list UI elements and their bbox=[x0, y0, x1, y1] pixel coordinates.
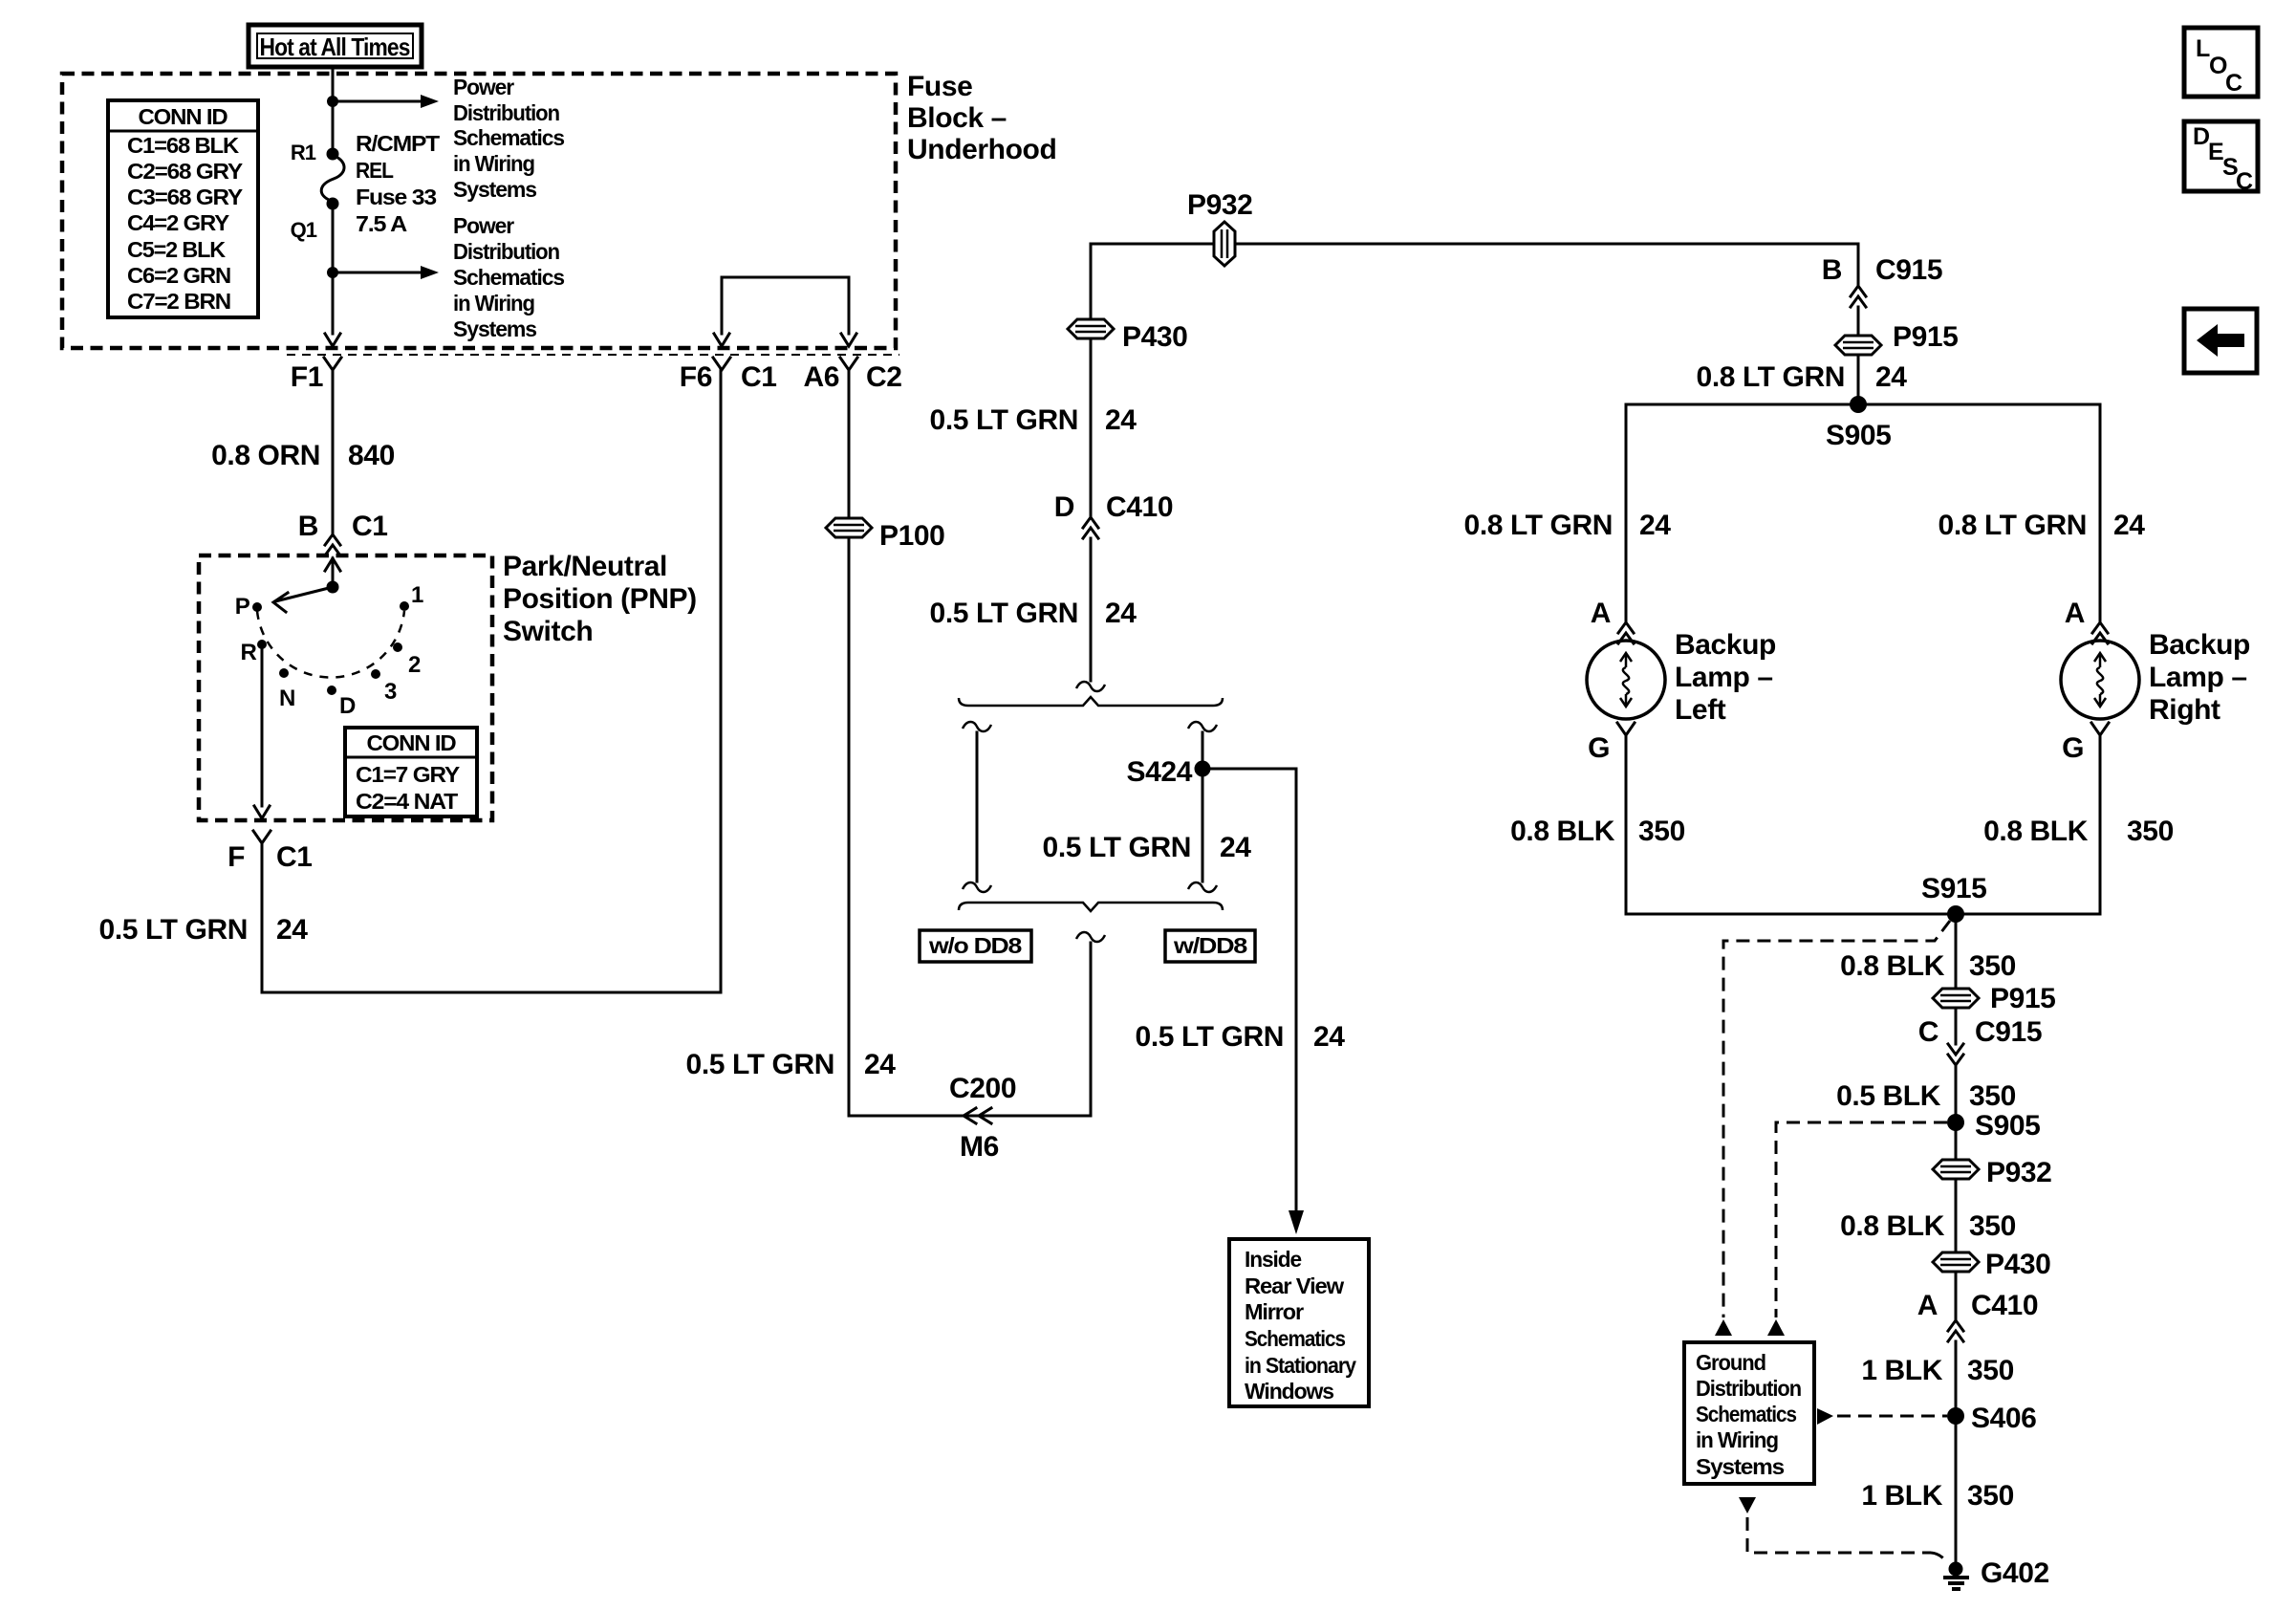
svg-text:w/o DD8: w/o DD8 bbox=[928, 933, 1023, 958]
svg-text:0.8 LT GRN: 0.8 LT GRN bbox=[1697, 361, 1845, 393]
svg-text:Rear View: Rear View bbox=[1245, 1274, 1344, 1298]
svg-text:Schematics: Schematics bbox=[1696, 1402, 1796, 1426]
grommet P915 (top) bbox=[1835, 321, 1958, 355]
contact D bbox=[327, 686, 356, 719]
arrow from box bottom (to G402 run) bbox=[1739, 1497, 1756, 1513]
svg-text:0.5 LT GRN: 0.5 LT GRN bbox=[930, 404, 1078, 436]
pin labels F6 C1 bbox=[680, 361, 777, 393]
svg-text:Left: Left bbox=[1675, 694, 1726, 726]
svg-text:D: D bbox=[339, 693, 356, 719]
svg-text:24: 24 bbox=[864, 1049, 896, 1080]
svg-text:P100: P100 bbox=[879, 520, 944, 552]
svg-text:C410: C410 bbox=[1106, 491, 1173, 523]
wire: P430 to C410 break bbox=[1955, 1273, 1958, 1318]
wire label 0.8 BLK 350 (left) bbox=[1510, 816, 1685, 847]
svg-text:C2=68 GRY: C2=68 GRY bbox=[127, 159, 243, 184]
svg-text:24: 24 bbox=[1875, 361, 1907, 393]
svg-text:L: L bbox=[2196, 35, 2210, 62]
label box: w/DD8 bbox=[1165, 930, 1255, 962]
svg-text:C1: C1 bbox=[741, 361, 777, 393]
wire: P932 to P430 bbox=[1955, 1180, 1958, 1252]
svg-text:Systems: Systems bbox=[453, 177, 536, 202]
connector break C C915 (arrow down) bbox=[1948, 1044, 1963, 1065]
switch common wire entering box (arrow up) bbox=[325, 558, 340, 587]
wire label 0.5 LT GRN 24 (above C410) bbox=[930, 404, 1137, 436]
ground G402 bbox=[1943, 1557, 2049, 1589]
pin labels A C410 bbox=[1917, 1290, 2038, 1321]
svg-text:A: A bbox=[2065, 598, 2085, 629]
svg-text:Windows: Windows bbox=[1245, 1379, 1333, 1404]
option split bracket (top) bbox=[959, 697, 1223, 706]
label: Backup Lamp - Right bbox=[2149, 629, 2250, 726]
svg-text:S905: S905 bbox=[1975, 1110, 2040, 1142]
svg-text:C4=2 GRY: C4=2 GRY bbox=[127, 210, 229, 235]
svg-text:P430: P430 bbox=[1985, 1249, 2050, 1280]
wire label 1 BLK 350 (upper) bbox=[1861, 1355, 2014, 1386]
inline connector C200 M6 (chevrons) bbox=[949, 1073, 1016, 1163]
svg-text:A6: A6 bbox=[803, 361, 839, 393]
svg-text:in Wiring: in Wiring bbox=[453, 291, 534, 316]
wire label 0.5 LT GRN 24 (w/DD8 branch) bbox=[1043, 832, 1252, 863]
reference box: Inside Rear View Mirror Schematics in Stationary Windows bbox=[1229, 1239, 1369, 1406]
svg-text:3: 3 bbox=[384, 679, 397, 705]
svg-text:B: B bbox=[1822, 254, 1842, 286]
wire arrow to Power Distribution (top) bbox=[333, 95, 439, 108]
CONN ID table (fuse block) bbox=[108, 100, 258, 317]
wire label 0.8 LT GRN 24 (into S905) bbox=[1697, 361, 1908, 393]
svg-text:N: N bbox=[279, 686, 295, 711]
svg-text:S424: S424 bbox=[1127, 756, 1193, 788]
svg-text:Fuse 33: Fuse 33 bbox=[356, 185, 436, 209]
wire label 0.5 LT GRN 24 (PNP output) bbox=[99, 914, 309, 946]
svg-text:24: 24 bbox=[1220, 832, 1251, 863]
fuse R/CMPT REL Fuse 33 7.5 A (element between R1 and Q1) bbox=[321, 148, 344, 210]
svg-text:S905: S905 bbox=[1826, 420, 1891, 451]
splice S905 bbox=[1826, 396, 1891, 451]
grommet P932 (engine harness) bbox=[1187, 189, 1252, 266]
pin labels F C1 bbox=[227, 841, 313, 873]
svg-text:CONN ID: CONN ID bbox=[367, 730, 456, 755]
wire: P932 run corner down to C915 bbox=[1857, 244, 1860, 284]
pin labels C C915 bbox=[1918, 1016, 2042, 1048]
wire: C410 down to option split bbox=[1090, 538, 1093, 681]
grommet P430 (top) bbox=[1068, 319, 1187, 353]
wire arrow to Power Distribution (bottom) bbox=[333, 266, 439, 279]
wire label 0.8 BLK 350 (S915 out) bbox=[1840, 950, 2016, 982]
wire label 0.8 BLK 350 (right) bbox=[1983, 816, 2174, 847]
wire: C915 to P915 bbox=[1857, 307, 1860, 335]
svg-text:Ground: Ground bbox=[1696, 1350, 1765, 1375]
svg-text:0.8 ORN: 0.8 ORN bbox=[211, 440, 320, 471]
svg-text:F: F bbox=[227, 841, 245, 873]
wire: P915 to C915 break bbox=[1955, 1009, 1958, 1044]
svg-text:Schematics: Schematics bbox=[453, 265, 564, 290]
backup lamp - right (bulb) bbox=[2061, 641, 2139, 719]
pin A break (left lamp) bbox=[1591, 598, 1634, 643]
svg-text:0.8 BLK: 0.8 BLK bbox=[1840, 950, 1945, 982]
svg-text:CONN ID: CONN ID bbox=[139, 104, 227, 129]
svg-text:G402: G402 bbox=[1981, 1557, 2049, 1589]
pin label R1 bbox=[291, 141, 316, 164]
wire: S424 to Inside Rear View Mirror box bbox=[1202, 769, 1304, 1234]
icon: DESC button bbox=[2184, 121, 2258, 195]
label: Fuse Block - Underhood bbox=[907, 71, 1056, 165]
splice S406 bbox=[1947, 1403, 2036, 1434]
thin dashed connector interface line below fuse block bbox=[287, 354, 899, 356]
svg-text:P932: P932 bbox=[1986, 1157, 2051, 1188]
svg-text:R: R bbox=[240, 640, 256, 665]
svg-text:R/CMPT: R/CMPT bbox=[356, 131, 440, 156]
svg-text:24: 24 bbox=[276, 914, 308, 946]
pin label Q1 bbox=[291, 218, 317, 242]
svg-text:7.5 A: 7.5 A bbox=[356, 211, 407, 236]
svg-text:Schematics: Schematics bbox=[453, 125, 564, 150]
svg-text:C200: C200 bbox=[949, 1073, 1016, 1104]
svg-text:Right: Right bbox=[2149, 694, 2220, 726]
annotation: Power Distribution Schematics in Wiring Systems (top) bbox=[453, 75, 564, 202]
svg-text:350: 350 bbox=[1969, 950, 2016, 982]
svg-text:2: 2 bbox=[408, 652, 421, 678]
annotation: Power Distribution Schematics in Wiring Systems (bottom) bbox=[453, 213, 564, 341]
svg-text:C6=2 GRN: C6=2 GRN bbox=[127, 263, 231, 288]
pin A break (right lamp) bbox=[2065, 598, 2108, 643]
svg-text:350: 350 bbox=[2127, 816, 2174, 847]
svg-text:w/DD8: w/DD8 bbox=[1173, 933, 1248, 958]
svg-text:Mirror: Mirror bbox=[1245, 1299, 1304, 1324]
wire: C200 stub up to option merge bbox=[1090, 943, 1093, 1116]
wire break at merge stub bbox=[1076, 932, 1105, 942]
connector pin A6 C2 (socket) bbox=[840, 358, 857, 370]
CONN ID table (PNP switch) bbox=[345, 728, 477, 816]
arrow into box (from S905) bbox=[1767, 1319, 1785, 1336]
reference box: Ground Distribution Schematics in Wiring Systems bbox=[1684, 1342, 1814, 1484]
svg-text:0.8 BLK: 0.8 BLK bbox=[1840, 1210, 1945, 1242]
dashed wire: box to S406 bbox=[1837, 1415, 1947, 1418]
label box: Hot at All Times bbox=[249, 25, 422, 67]
svg-text:C1=68 BLK: C1=68 BLK bbox=[127, 133, 240, 158]
wire: A6 C2 down to P100 bbox=[848, 370, 851, 517]
switch pivot junction bbox=[327, 581, 339, 594]
label box: w/o DD8 bbox=[920, 930, 1031, 962]
wire: F1 to PNP switch pin B bbox=[332, 370, 335, 533]
wire: P915 down to S905 bbox=[1857, 356, 1860, 404]
svg-text:Park/Neutral: Park/Neutral bbox=[503, 551, 667, 582]
svg-text:in Wiring: in Wiring bbox=[453, 151, 534, 176]
svg-text:Lamp –: Lamp – bbox=[2149, 662, 2247, 693]
wire: P430 branch corner to C915 corner (through P932) bbox=[1091, 243, 1858, 246]
arrow from box to S406 bbox=[1817, 1408, 1833, 1425]
wire: left lamp ground drop bbox=[1625, 735, 1628, 914]
svg-text:350: 350 bbox=[1967, 1355, 2014, 1386]
svg-text:P: P bbox=[235, 594, 250, 620]
pin G socket (left lamp) bbox=[1588, 723, 1635, 764]
connector break B C1 bbox=[325, 534, 340, 555]
wire: corner down to P430 bbox=[1090, 244, 1093, 318]
svg-text:A: A bbox=[1591, 598, 1611, 629]
switch arm (points at P) bbox=[273, 587, 333, 612]
connector pin F6 C1 (socket) bbox=[713, 358, 730, 370]
svg-text:350: 350 bbox=[1969, 1080, 2016, 1112]
svg-text:Backup: Backup bbox=[2149, 629, 2250, 661]
wire label 1 BLK 350 (lower) bbox=[1861, 1480, 2014, 1512]
ground rail into S915 bbox=[1626, 913, 2100, 916]
label: Backup Lamp - Left bbox=[1675, 629, 1776, 726]
svg-text:Q1: Q1 bbox=[291, 218, 317, 242]
grommet P430 (bottom) bbox=[1933, 1249, 2050, 1280]
svg-text:Systems: Systems bbox=[453, 316, 536, 341]
svg-text:0.5 LT GRN: 0.5 LT GRN bbox=[99, 914, 248, 946]
svg-text:0.5 LT GRN: 0.5 LT GRN bbox=[686, 1049, 834, 1080]
svg-text:Lamp –: Lamp – bbox=[1675, 662, 1773, 693]
svg-text:Underhood: Underhood bbox=[907, 134, 1056, 165]
wire: fuse block internal bridge F6 to A6 bbox=[722, 277, 849, 334]
svg-text:C1: C1 bbox=[352, 511, 388, 542]
svg-text:Block –: Block – bbox=[907, 102, 1007, 134]
wire break before option split bbox=[1076, 682, 1105, 691]
splice S915 bbox=[1921, 873, 1986, 923]
svg-text:Distribution: Distribution bbox=[453, 100, 559, 125]
arrow into box (from S915) bbox=[1715, 1319, 1732, 1336]
svg-text:in Stationary: in Stationary bbox=[1245, 1353, 1356, 1378]
wire label 0.5 LT GRN 24 (above C200) bbox=[686, 1049, 897, 1080]
backup lamp - left (bulb) bbox=[1587, 641, 1665, 719]
svg-text:C: C bbox=[2225, 70, 2242, 97]
wire: P100 down to C200 run bbox=[849, 538, 1091, 1116]
svg-text:24: 24 bbox=[1105, 404, 1137, 436]
pin labels B C1 bbox=[298, 511, 388, 542]
svg-text:C: C bbox=[2236, 168, 2253, 195]
dashed wire: S915 to Ground Distribution box bbox=[1723, 921, 1950, 1317]
svg-text:P915: P915 bbox=[1893, 321, 1958, 353]
wire label 0.5 LT GRN 24 (mirror feed) bbox=[1136, 1021, 1346, 1053]
wire: pin F C1 down, across and up to fuse block F6 bbox=[262, 370, 721, 992]
wire label 0.5 LT GRN 24 (below C410) bbox=[930, 598, 1137, 629]
svg-text:0.5 BLK: 0.5 BLK bbox=[1836, 1080, 1941, 1112]
svg-text:Position (PNP): Position (PNP) bbox=[503, 583, 697, 615]
contact 1 bbox=[400, 582, 423, 611]
svg-text:Distribution: Distribution bbox=[1696, 1376, 1801, 1401]
contact 3 bbox=[371, 669, 397, 705]
icon: LOC button bbox=[2184, 28, 2258, 97]
svg-text:F6: F6 bbox=[680, 361, 712, 393]
svg-text:0.5 LT GRN: 0.5 LT GRN bbox=[1043, 832, 1191, 863]
wire: P430 to C410 break bbox=[1090, 339, 1093, 515]
svg-text:G: G bbox=[1588, 732, 1610, 764]
svg-text:P430: P430 bbox=[1122, 321, 1187, 353]
wire label 0.8 LT GRN 24 (left lamp feed) bbox=[1464, 510, 1672, 541]
pin labels D C410 bbox=[1054, 491, 1173, 523]
svg-text:M6: M6 bbox=[960, 1131, 999, 1163]
svg-text:350: 350 bbox=[1638, 816, 1685, 847]
svg-text:0.8 LT GRN: 0.8 LT GRN bbox=[1939, 510, 2087, 541]
splice S905 (ground) bbox=[1947, 1110, 2040, 1142]
svg-text:Backup: Backup bbox=[1675, 629, 1776, 661]
svg-text:A: A bbox=[1917, 1290, 1938, 1321]
svg-text:S406: S406 bbox=[1971, 1403, 2036, 1434]
fuse block dashed enclosure bbox=[62, 74, 896, 348]
svg-text:1 BLK: 1 BLK bbox=[1861, 1355, 1942, 1386]
option merge bracket (bottom) bbox=[959, 903, 1223, 911]
svg-text:Inside: Inside bbox=[1245, 1247, 1301, 1272]
svg-text:Distribution: Distribution bbox=[453, 239, 559, 264]
svg-text:C3=68 GRY: C3=68 GRY bbox=[127, 185, 243, 209]
svg-text:C915: C915 bbox=[1975, 1016, 2042, 1048]
svg-text:0.8 LT GRN: 0.8 LT GRN bbox=[1464, 510, 1613, 541]
pin labels A6 C2 bbox=[803, 361, 901, 393]
dashed wire: box bottom to G402 bbox=[1747, 1517, 1947, 1563]
arrow into F6 bbox=[714, 334, 729, 346]
svg-text:Fuse: Fuse bbox=[907, 71, 972, 102]
svg-text:P915: P915 bbox=[1990, 983, 2055, 1014]
svg-text:24: 24 bbox=[1313, 1021, 1345, 1053]
contact P bbox=[235, 594, 262, 620]
svg-text:C915: C915 bbox=[1875, 254, 1942, 286]
connector break B C915 bbox=[1851, 286, 1866, 307]
value label: R/CMPT REL Fuse 33 7.5 A bbox=[356, 131, 440, 236]
svg-text:350: 350 bbox=[1969, 1210, 2016, 1242]
splice S424 bbox=[1127, 756, 1211, 788]
wire label 0.8 ORN 840 bbox=[211, 440, 395, 471]
wire: right lamp ground drop bbox=[2099, 735, 2102, 914]
svg-text:P932: P932 bbox=[1187, 189, 1252, 221]
option branch w/DD8 (right) bbox=[1188, 722, 1217, 892]
svg-text:R1: R1 bbox=[291, 141, 316, 164]
svg-text:0.8 BLK: 0.8 BLK bbox=[1510, 816, 1615, 847]
svg-text:REL: REL bbox=[356, 158, 394, 183]
svg-text:840: 840 bbox=[348, 440, 395, 471]
label: Park/Neutral Position (PNP) Switch bbox=[503, 551, 697, 647]
svg-text:F1: F1 bbox=[291, 361, 323, 393]
wire: C915 through S905 to P932 bbox=[1955, 1067, 1958, 1159]
connector pin F1 (socket) bbox=[324, 358, 341, 370]
svg-text:C7=2 BRN: C7=2 BRN bbox=[127, 289, 231, 314]
svg-text:Hot at All Times: Hot at All Times bbox=[260, 33, 410, 61]
pin labels B C915 bbox=[1822, 254, 1942, 286]
wire: S915 down to P915 bbox=[1955, 914, 1958, 988]
svg-text:24: 24 bbox=[1105, 598, 1137, 629]
svg-text:Systems: Systems bbox=[1696, 1454, 1784, 1479]
svg-text:D: D bbox=[1054, 491, 1074, 523]
svg-text:0.5 LT GRN: 0.5 LT GRN bbox=[930, 598, 1078, 629]
contact 2 bbox=[393, 642, 421, 678]
dashed wire: S905 to Ground Distribution box bbox=[1776, 1122, 1947, 1317]
Park/Neutral Position switch dashed enclosure bbox=[199, 555, 492, 820]
switch contact arc (dashed) bbox=[257, 611, 404, 678]
lamp feed rail from S905 bbox=[1626, 404, 2100, 620]
svg-text:24: 24 bbox=[1639, 510, 1671, 541]
svg-text:Power: Power bbox=[453, 213, 514, 238]
svg-text:G: G bbox=[2062, 732, 2084, 764]
arrow into A6 bbox=[841, 334, 856, 346]
option branch w/o DD8 (left) bbox=[963, 722, 991, 892]
svg-text:Schematics: Schematics bbox=[1245, 1326, 1345, 1351]
svg-text:0.5 LT GRN: 0.5 LT GRN bbox=[1136, 1021, 1284, 1053]
pin G socket (right lamp) bbox=[2062, 723, 2109, 764]
svg-text:in Wiring: in Wiring bbox=[1696, 1427, 1778, 1452]
pin labels F1 bbox=[291, 361, 323, 393]
svg-text:C1: C1 bbox=[276, 841, 313, 873]
wire: C410 down through S406 to G402 bbox=[1955, 1341, 1958, 1561]
svg-text:Switch: Switch bbox=[503, 616, 593, 647]
svg-text:350: 350 bbox=[1967, 1480, 2014, 1512]
wire label 0.8 LT GRN 24 (right lamp feed) bbox=[1939, 510, 2146, 541]
connector pin F C1 (socket) bbox=[253, 831, 271, 843]
wire: battery feed from Hot at All Times down through fuse block bbox=[332, 67, 335, 334]
svg-text:24: 24 bbox=[2113, 510, 2145, 541]
icon: back arrow button bbox=[2184, 309, 2257, 373]
svg-text:1 BLK: 1 BLK bbox=[1861, 1480, 1942, 1512]
grommet P932 (bottom) bbox=[1933, 1157, 2051, 1188]
svg-text:C1=7 GRY: C1=7 GRY bbox=[356, 762, 460, 787]
wire: contact R to pin F (exits box) bbox=[254, 648, 270, 818]
svg-text:C410: C410 bbox=[1971, 1290, 2038, 1321]
junction: top feed tap bbox=[327, 96, 338, 107]
contact N bbox=[279, 668, 295, 711]
grommet P915 (bottom) bbox=[1933, 983, 2055, 1014]
junction: bottom feed tap bbox=[327, 267, 338, 278]
svg-text:C5=2 BLK: C5=2 BLK bbox=[127, 237, 227, 262]
svg-text:S915: S915 bbox=[1921, 873, 1986, 904]
svg-text:C2: C2 bbox=[866, 361, 902, 393]
connector break D C410 bbox=[1083, 517, 1098, 538]
arrow: feed exits fuse block at F1 bbox=[325, 334, 340, 346]
connector break A C410 bbox=[1948, 1320, 1963, 1341]
svg-text:1: 1 bbox=[411, 582, 423, 608]
wire label 0.8 BLK 350 (between P932 and P430) bbox=[1840, 1210, 2016, 1242]
svg-text:B: B bbox=[298, 511, 318, 542]
svg-text:C: C bbox=[1918, 1016, 1939, 1048]
wire label 0.5 BLK 350 bbox=[1836, 1080, 2016, 1112]
svg-text:C2=4 NAT: C2=4 NAT bbox=[356, 789, 458, 814]
svg-text:Power: Power bbox=[453, 75, 514, 99]
svg-text:0.8 BLK: 0.8 BLK bbox=[1983, 816, 2089, 847]
grommet P100 bbox=[826, 518, 944, 552]
contact R bbox=[240, 640, 267, 665]
